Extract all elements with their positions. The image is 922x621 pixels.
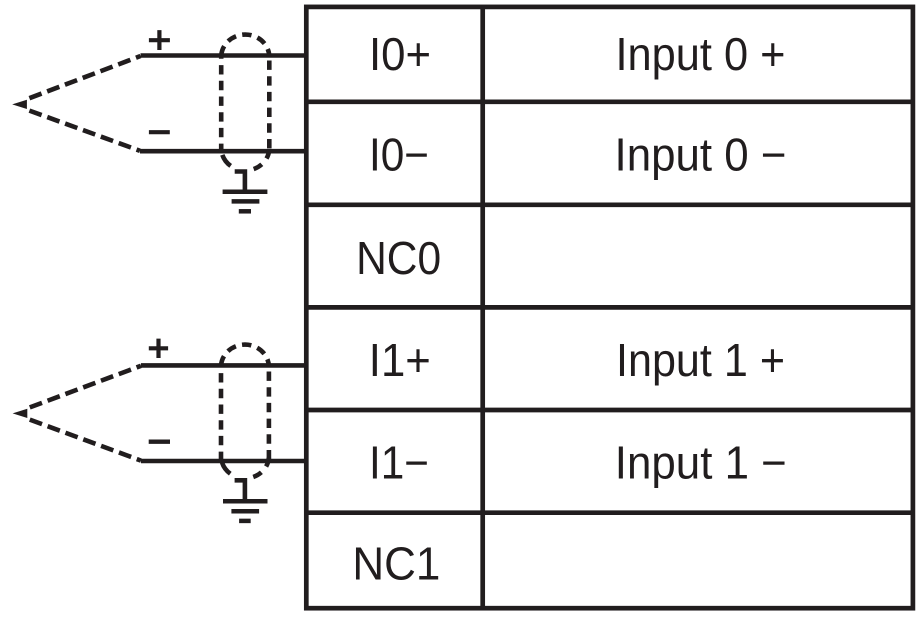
shield S0 (dashed stadium around wire pair) <box>219 57 224 153</box>
svg-text:Input 1 −: Input 1 − <box>615 436 787 488</box>
ground G0 bar 3 <box>239 209 251 214</box>
table row divider 3 <box>306 305 913 310</box>
svg-text:Input 1 +: Input 1 + <box>616 334 785 386</box>
sensor1 dashed triangle bottom edge <box>30 420 141 461</box>
table row divider 2 <box>306 202 913 207</box>
ground G1 stem <box>235 480 245 501</box>
ground G1 bar 1 <box>223 499 268 504</box>
table column divider <box>480 7 485 608</box>
svg-text:I1+: I1+ <box>369 334 431 386</box>
wire sensor1 + to terminal I1+ <box>141 363 306 368</box>
ground G1 bar 3 <box>239 519 251 524</box>
shield S1 (dashed stadium around wire pair) <box>219 367 224 461</box>
wire sensor1 - to terminal I1- <box>141 459 306 464</box>
table row divider 1 <box>306 99 913 104</box>
polarity label + sensor1 <box>149 339 168 358</box>
polarity label - sensor1 <box>149 440 170 444</box>
svg-text:I1−: I1− <box>369 436 429 488</box>
sensor1 apex arrowhead <box>13 409 28 418</box>
wire sensor0 - to terminal I0- <box>140 149 306 154</box>
table row divider 5 <box>306 510 913 515</box>
ground G0 bar 1 <box>223 190 268 195</box>
ground G0 bar 2 <box>232 199 260 204</box>
sensor0 apex arrowhead <box>12 100 27 109</box>
svg-text:NC1: NC1 <box>352 537 440 589</box>
svg-text:Input 0 +: Input 0 + <box>616 28 786 80</box>
ground G1 bar 2 <box>231 509 259 514</box>
table row divider 4 <box>306 408 913 413</box>
svg-text:I0−: I0− <box>369 129 429 181</box>
terminal table outer border <box>306 7 913 608</box>
svg-text:Input 0 −: Input 0 − <box>615 129 787 181</box>
sensor0 dashed triangle top edge <box>29 56 140 98</box>
ground G0 stem <box>235 172 245 192</box>
wire sensor0 + to terminal I0+ <box>141 53 307 58</box>
polarity label - sensor0 <box>149 130 170 134</box>
sensor0 dashed triangle bottom edge <box>29 111 140 151</box>
svg-text:NC0: NC0 <box>356 232 441 284</box>
polarity label + sensor0 <box>149 30 170 50</box>
sensor1 dashed triangle top edge <box>30 366 141 408</box>
svg-text:I0+: I0+ <box>369 28 431 80</box>
